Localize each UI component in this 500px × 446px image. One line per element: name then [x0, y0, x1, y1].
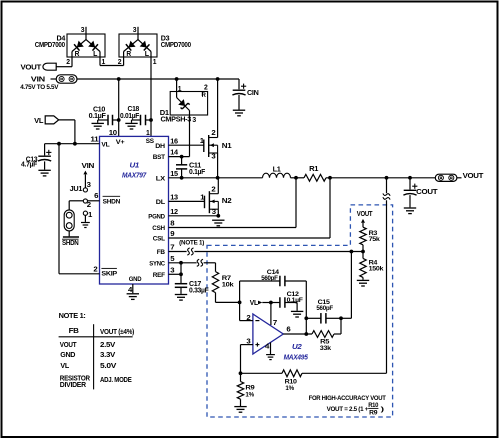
CIN plus sign [241, 84, 246, 89]
svg-text:3: 3 [211, 154, 215, 161]
R9 ground lead [240, 399, 242, 406]
svg-text:13: 13 [170, 195, 178, 202]
VL supply arrow [258, 301, 271, 305]
R1 label [309, 166, 318, 173]
U1 designator [130, 160, 140, 169]
junction opamp V+ [269, 301, 273, 305]
svg-text:MAX495: MAX495 [284, 353, 309, 362]
junction VL/SKIP rail [57, 142, 61, 146]
JU1 pin 2 circle [83, 199, 87, 203]
svg-text:CSL: CSL [153, 236, 165, 243]
U1 GND label [129, 276, 142, 283]
svg-text:6: 6 [286, 326, 290, 333]
C14 label [261, 269, 279, 282]
U2 designator [292, 342, 303, 351]
VL supply label [250, 300, 259, 307]
divider cut riser lower [386, 200, 388, 373]
junction VIN/V+ [117, 77, 121, 81]
U1 V+ label [116, 139, 125, 146]
svg-text:SHDN: SHDN [103, 198, 121, 205]
VIN rail wire [77, 78, 239, 80]
JU1 pin 3 circle [83, 188, 87, 192]
N2 pin 2 number [211, 186, 215, 193]
N1 label [222, 143, 232, 150]
C13 feed [44, 144, 46, 156]
R10 right wire [302, 372, 387, 374]
svg-text:150k: 150k [369, 266, 384, 273]
N1 pin 3 number [211, 154, 215, 161]
svg-text:(NOTE 1): (NOTE 1) [179, 241, 204, 247]
svg-text:DL: DL [156, 199, 165, 206]
JU1 pin 1 label [88, 212, 92, 219]
svg-text:R1: R1 [309, 166, 318, 173]
svg-text:2.5V: 2.5V [100, 340, 115, 349]
D4 internal wires [72, 40, 100, 58]
VOUT connector lead [457, 177, 462, 179]
svg-text:VOUT (±4%): VOUT (±4%) [100, 327, 135, 336]
CIN label [247, 90, 259, 97]
VOUT tag (left) [43, 63, 56, 70]
C13 plus sign [46, 150, 51, 155]
svg-text:CSH: CSH [152, 225, 165, 232]
VOUT output label [463, 171, 484, 180]
capacitor C14 [280, 276, 285, 287]
svg-text:N2: N2 [222, 198, 232, 205]
svg-text:2: 2 [204, 85, 208, 92]
R9 ground [234, 407, 246, 413]
resistor R1 [304, 174, 326, 181]
C13 ground [38, 170, 50, 176]
svg-text:U2: U2 [292, 342, 303, 351]
junction output/C15 [304, 316, 308, 320]
U2 V- ground [266, 355, 275, 360]
svg-text:2: 2 [211, 130, 215, 137]
svg-text:JU1: JU1 [70, 186, 83, 193]
COUT label [416, 189, 438, 196]
VIN label [31, 75, 45, 84]
table header VOUT [100, 327, 135, 336]
VL tag label [34, 116, 44, 125]
svg-text:SYNC: SYNC [149, 260, 165, 267]
CSL sense wire [169, 178, 331, 238]
D4 right diode (L) [88, 41, 98, 59]
svg-text:VOUT: VOUT [60, 340, 77, 349]
transistor N2 [205, 191, 219, 213]
R9/R10 node wire [241, 372, 283, 374]
divider VOUT arrow [361, 219, 365, 227]
JU1 pin 1 circle [83, 211, 87, 222]
svg-text:3: 3 [246, 338, 250, 345]
D3 pin 3 stub [133, 27, 138, 40]
U2 inverting input wire [240, 320, 253, 322]
svg-text:4: 4 [265, 343, 269, 350]
VL tag wire [59, 120, 75, 144]
svg-text:0.1µF: 0.1µF [89, 113, 107, 120]
D1 anode riser [176, 79, 178, 92]
junction VIN/D1 [175, 77, 179, 81]
R4 ground lead [362, 277, 364, 279]
JU1 pin 3 label [87, 182, 91, 189]
U1 pin 15 number [170, 171, 178, 178]
junction LX/C11 [180, 176, 184, 180]
R4 ground [357, 280, 369, 286]
svg-text:C18: C18 [128, 106, 140, 113]
svg-text:VL: VL [34, 116, 44, 125]
C12 label [287, 291, 303, 304]
U1 BST pin label [153, 154, 166, 161]
CIN feed wire [238, 79, 240, 89]
SHDN terminal label [62, 239, 79, 247]
junction LX node [216, 176, 220, 180]
SYNC-REF tie [180, 263, 182, 275]
svg-text:CIN: CIN [247, 90, 259, 97]
svg-text:560pF: 560pF [261, 275, 278, 282]
svg-text:8: 8 [170, 221, 174, 228]
svg-text:VOUT: VOUT [463, 171, 484, 180]
divider cut riser upper [386, 178, 388, 193]
N1 pin 2 number [211, 130, 215, 137]
svg-text:GND: GND [129, 276, 142, 283]
REF wire [169, 273, 182, 275]
dashed option box [207, 205, 393, 417]
R7 bottom wire [216, 293, 240, 303]
svg-text:VOUT = 2.5 (1 +: VOUT = 2.5 (1 + [327, 406, 369, 413]
svg-text:75k: 75k [369, 236, 381, 243]
N1 source wire [217, 153, 219, 178]
svg-text:1: 1 [200, 138, 204, 145]
svg-text:VIN: VIN [31, 75, 45, 84]
junction output/C14 [304, 332, 308, 336]
D1 cathode wire to BST [189, 115, 191, 157]
COUT ground [404, 208, 416, 214]
FB feedback riser [341, 252, 351, 319]
U1 pin 13 number [170, 195, 178, 202]
R3 label [369, 230, 381, 243]
C17 label [189, 281, 209, 295]
junction CSH tap [294, 176, 298, 180]
C18 ground [125, 123, 137, 129]
svg-text:0.01µF: 0.01µF [120, 113, 140, 120]
svg-text:12: 12 [170, 209, 178, 216]
svg-text:3: 3 [133, 27, 137, 34]
C13 label [21, 156, 38, 168]
junction FB divider [361, 250, 365, 254]
resistor R10 [282, 370, 302, 377]
switch S1 body [64, 210, 74, 231]
C10 label [89, 107, 107, 121]
svg-text:DH: DH [155, 143, 165, 150]
svg-text:3: 3 [170, 267, 174, 274]
svg-text:6: 6 [94, 193, 98, 200]
svg-text:VOUT: VOUT [357, 211, 373, 218]
N2 drain wire [217, 178, 219, 194]
U1 SS label [146, 138, 155, 145]
R7 label [222, 275, 234, 288]
inverting node riser [239, 281, 241, 321]
junction SYNC/REF [179, 261, 183, 265]
svg-text:11: 11 [90, 137, 98, 144]
switch S1 terminal [63, 231, 79, 237]
C14 right wire [285, 281, 306, 334]
svg-text:L1: L1 [273, 167, 281, 174]
PGND wire [169, 215, 219, 217]
DL gate wire [169, 200, 205, 202]
svg-text:R: R [75, 51, 80, 58]
svg-text:NOTE 1:: NOTE 1: [59, 311, 86, 320]
svg-text:1: 1 [88, 212, 92, 219]
opamp V+ riser [270, 303, 272, 326]
svg-text:16: 16 [170, 138, 178, 145]
D3 pin 2 lead [118, 57, 124, 66]
resistor R3 [360, 227, 366, 245]
svg-text:4.75V TO 5.5V: 4.75V TO 5.5V [20, 84, 59, 91]
U1 pin 11 number [90, 137, 98, 144]
U1 SKIP label [101, 268, 117, 277]
pin 1 number [146, 130, 150, 137]
U1 part number [122, 171, 147, 180]
vout formula [327, 403, 384, 417]
svg-text:5.0V: 5.0V [100, 361, 116, 370]
op IC U1 box [100, 136, 169, 284]
table row GND [60, 350, 115, 359]
junction C15/R5 node [339, 316, 343, 320]
U2 pin 7 number [273, 320, 277, 327]
capacitor C11 [176, 157, 187, 178]
COUT plus sign [412, 184, 417, 189]
capacitor C12 [271, 297, 297, 311]
VIN lead dash [51, 78, 57, 80]
D4 pin 3 stub [81, 27, 86, 40]
svg-text:2: 2 [211, 186, 215, 193]
table row resistor divider [60, 373, 132, 389]
svg-text:MAX797: MAX797 [122, 171, 147, 180]
VIN label at JU1 [82, 163, 95, 170]
SYNC wire break [197, 259, 203, 266]
D1 internal wire [177, 92, 190, 116]
BST wire [169, 156, 190, 158]
svg-text:3: 3 [192, 117, 196, 124]
D1 schottky diode [178, 99, 189, 109]
U1 SYNC pin label [149, 260, 165, 267]
PGND ground [212, 220, 224, 226]
transistor N1 [204, 135, 218, 157]
svg-text:1: 1 [200, 194, 204, 201]
resistor R7 [212, 272, 218, 293]
VOUT tag label [21, 62, 42, 71]
U1 FB pin label [157, 249, 165, 256]
VOUT divider label [357, 211, 373, 218]
svg-text:R9: R9 [369, 411, 378, 417]
junction C18/SS [149, 118, 153, 122]
inductor L1 [263, 173, 291, 178]
U2 pin 6 number [286, 326, 290, 333]
svg-text:VL: VL [60, 361, 69, 370]
svg-text:3: 3 [212, 209, 216, 216]
N2 source wire [217, 209, 219, 216]
U1 SHDN label [103, 196, 121, 205]
C10 ground [92, 123, 104, 129]
U1 pin 16 number [170, 138, 178, 145]
junction PGND [216, 214, 220, 218]
svg-text:FB: FB [69, 326, 80, 335]
svg-text:14: 14 [170, 150, 178, 157]
JU1 VIN arrow [83, 171, 87, 188]
LX wire [169, 177, 263, 179]
pin 10 number [109, 130, 117, 137]
svg-text:1: 1 [153, 59, 157, 66]
D3 label [161, 36, 191, 50]
junction VIN/N1 drain [216, 77, 220, 81]
NOTE 1 callout [179, 241, 204, 247]
U1 REF pin label [153, 272, 165, 279]
C18 label [120, 106, 140, 120]
U2 part number [284, 353, 309, 362]
U1 pin 12 number [170, 209, 178, 216]
CIN ground [233, 110, 245, 116]
svg-text:CMPD7000: CMPD7000 [35, 42, 65, 49]
junction VL tag [73, 142, 77, 146]
VIN range label [20, 84, 59, 91]
svg-text:1%: 1% [245, 391, 254, 398]
U1 pin 14 number [170, 150, 178, 157]
VL tag [45, 116, 59, 124]
C14 top wire [240, 280, 280, 282]
junction FB/opamp [350, 250, 354, 254]
wire D4.1 to D3.2 [100, 65, 124, 67]
output rail [326, 177, 435, 179]
junction noninverting node [239, 371, 243, 375]
U1 GND ground symbol [127, 294, 139, 300]
capacitor C13 [38, 156, 51, 170]
D4 pin 1 lead [100, 57, 105, 66]
VIN connector J1 [56, 75, 77, 83]
U1 pin 3 number [170, 267, 174, 274]
svg-text:CMPD7000: CMPD7000 [161, 42, 191, 49]
switch S1 contacts [66, 212, 72, 228]
SYNC wire [169, 263, 216, 272]
D1 pin 1 number [178, 86, 182, 93]
svg-text:SS: SS [146, 138, 155, 145]
table header FB [69, 326, 80, 335]
C12 ground [291, 311, 303, 317]
svg-text:GND: GND [60, 350, 76, 359]
svg-text:2: 2 [66, 59, 70, 66]
junction divider tap [385, 176, 389, 180]
wire D4.2 to VOUT tag [56, 66, 72, 68]
svg-text:R10: R10 [368, 403, 379, 409]
C15 label [316, 299, 333, 312]
riser wire break [383, 193, 390, 199]
svg-text:LX: LX [156, 175, 166, 182]
N2 label [222, 198, 232, 205]
U1 pin 8 number [170, 221, 174, 228]
svg-text:CMPSH-3: CMPSH-3 [161, 116, 192, 123]
U2 pin 2 number [246, 315, 250, 322]
JU1 label [70, 186, 83, 193]
R4 label [369, 259, 384, 272]
note heading [59, 311, 86, 320]
U2 pin 4 stub [265, 342, 271, 354]
svg-text:9: 9 [170, 231, 174, 238]
DH gate wire [169, 144, 204, 146]
svg-text:N1: N1 [222, 143, 232, 150]
D1 label [160, 110, 196, 124]
N1 drain riser [217, 79, 219, 138]
CSH sense wire [169, 178, 297, 228]
R5 label [320, 338, 332, 351]
svg-text:ADJ. MODE: ADJ. MODE [100, 375, 132, 384]
svg-text:PGND: PGND [148, 213, 165, 220]
junction C10/V+ [117, 118, 121, 122]
dual diode D4 box [67, 34, 105, 57]
svg-text:VIN: VIN [82, 163, 95, 170]
svg-text:R: R [126, 51, 131, 58]
D1 pin 2 stub [202, 85, 208, 99]
SS riser wire (from D3.1) [150, 57, 152, 136]
U1 DL pin label [156, 199, 165, 206]
table row VOUT [60, 340, 116, 349]
table divider horizontal [59, 336, 133, 338]
junction BST/C11 [180, 155, 184, 159]
N2 pin 3 number [212, 209, 216, 216]
svg-text:FB: FB [157, 249, 165, 256]
svg-text:4.7µF: 4.7µF [21, 161, 38, 168]
junction inverting node [238, 301, 242, 305]
R5 right corner [334, 318, 341, 334]
U1 VL label [101, 142, 109, 149]
R10 label [285, 379, 298, 392]
svg-text:SKIP: SKIP [101, 270, 117, 277]
D4 label [35, 36, 66, 50]
U1 pin 7 number [170, 245, 174, 252]
capacitor C10 [98, 115, 119, 126]
table row VL [60, 361, 116, 370]
svg-text:33k: 33k [320, 345, 332, 352]
U2 minus sign [255, 320, 259, 322]
SKIP rail wire [59, 144, 100, 274]
C11 label [189, 162, 206, 176]
capacitor CIN [232, 90, 245, 109]
svg-text:0.1µF: 0.1µF [287, 297, 303, 304]
resistor R4 [360, 252, 366, 278]
U2 noninverting wire [241, 345, 253, 374]
R9 label [245, 385, 255, 399]
D4 pin 2 lead [66, 57, 72, 67]
D3 left diode (R) [126, 41, 136, 59]
SHDN pin wire [69, 201, 99, 210]
svg-text:U1: U1 [130, 160, 140, 169]
VL pin wire [45, 143, 100, 145]
svg-text:REF: REF [153, 272, 165, 279]
C17 ground [175, 295, 187, 301]
svg-text:VL: VL [101, 142, 109, 149]
U1 GND pin 4 stub [128, 284, 133, 294]
junction CSL tap [328, 176, 332, 180]
svg-text:7: 7 [273, 320, 277, 327]
capacitor C18 [132, 115, 152, 126]
U1 CSH pin label [152, 225, 165, 232]
U2 plus sign [255, 343, 259, 347]
svg-text:3.3V: 3.3V [100, 350, 115, 359]
capacitor C15 [306, 313, 341, 324]
V+ riser wire [118, 79, 120, 136]
JU1 ground [81, 223, 90, 228]
svg-text:0.1µF: 0.1µF [189, 169, 206, 176]
svg-text:560pF: 560pF [316, 305, 333, 312]
FB wire break [187, 248, 193, 255]
U1 pin 5 number [170, 256, 174, 263]
L1 label [273, 167, 281, 174]
